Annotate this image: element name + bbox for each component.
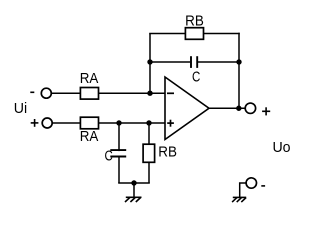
svg-text:RA: RA bbox=[80, 128, 99, 145]
svg-text:C: C bbox=[192, 69, 200, 86]
svg-text:RB: RB bbox=[185, 13, 204, 30]
svg-text:Uo: Uo bbox=[272, 139, 290, 156]
svg-text:C: C bbox=[105, 148, 113, 165]
svg-text:RA: RA bbox=[80, 70, 99, 87]
svg-text:RB: RB bbox=[158, 144, 177, 161]
svg-text:Ui: Ui bbox=[14, 100, 27, 117]
